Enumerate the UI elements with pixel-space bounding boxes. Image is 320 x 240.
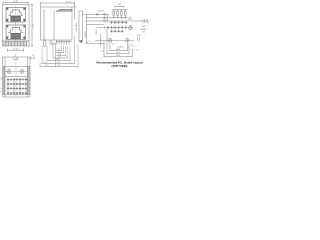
pcb layout pin hole row 3 xyxy=(110,30,123,33)
wire to capacitor xyxy=(131,20,143,22)
bottom view top notch xyxy=(14,57,18,60)
pcb layout mounting hole right xyxy=(126,38,130,43)
bottom view outer rectangle xyxy=(3,57,31,97)
resistor R4 xyxy=(124,10,126,18)
capacitor value label 1000pF 2kV xyxy=(141,26,147,34)
side view dimension extension lines xyxy=(40,36,78,67)
svg-text:14.0: 14.0 xyxy=(116,52,119,54)
pcb layout hole label leader xyxy=(111,42,114,46)
pcb layout pin hole row 1 xyxy=(110,21,127,24)
front view outer body rectangle xyxy=(3,5,30,47)
svg-text:3.3: 3.3 xyxy=(32,55,34,57)
pcb layout mounting hole left xyxy=(95,38,134,43)
resistor R2 xyxy=(117,10,119,18)
resistor R1 xyxy=(113,10,115,18)
svg-text:16.26: 16.26 xyxy=(116,49,120,51)
svg-text:1.14: 1.14 xyxy=(57,49,60,51)
center mark xyxy=(15,54,17,57)
svg-text:RJ45 JACK: RJ45 JACK xyxy=(75,22,78,32)
node junction circle xyxy=(96,13,98,15)
schematic jack connector body J1 xyxy=(79,11,83,41)
bottom view left tick texts xyxy=(0,78,2,94)
side view dimension texts xyxy=(43,49,61,67)
bottom view right shaded strip xyxy=(28,67,31,95)
svg-text:2.54: 2.54 xyxy=(57,51,60,53)
pcb layout right side dim marks xyxy=(131,37,140,48)
front view top dimension line xyxy=(3,2,28,5)
termination bracket xyxy=(115,6,124,8)
svg-text:12.70: 12.70 xyxy=(56,62,60,64)
wire pin2 xyxy=(86,17,127,19)
front view lower jack contact comb xyxy=(11,34,21,39)
bottom view left tick marks xyxy=(0,80,2,94)
svg-text:13.21: 13.21 xyxy=(33,23,35,29)
front view upper jack contact comb xyxy=(11,16,21,21)
svg-text:8-Ø0.89: 8-Ø0.89 xyxy=(85,31,87,37)
termination rail wire xyxy=(113,9,128,11)
svg-text:7.62: 7.62 xyxy=(58,57,61,59)
svg-text:2-Ø0.89: 2-Ø0.89 xyxy=(97,10,104,12)
svg-text:6.35: 6.35 xyxy=(43,62,46,64)
svg-text:16.51: 16.51 xyxy=(116,55,120,57)
wire pin3 xyxy=(86,20,128,22)
junction dots under resistors xyxy=(113,17,125,18)
side view top dimension line xyxy=(41,2,75,7)
jack foot block xyxy=(79,41,82,43)
wire pin1 xyxy=(83,13,109,15)
pcb layout dimension line 2 xyxy=(107,29,129,54)
side view nested pin dimension lines xyxy=(40,50,78,66)
svg-text:0.64: 0.64 xyxy=(135,50,138,52)
svg-text:2.5: 2.5 xyxy=(0,78,2,80)
bottom view inner lines xyxy=(3,57,31,97)
node chassis connection xyxy=(129,18,132,21)
bottom view pin grid xyxy=(7,78,27,95)
capacitor C1 xyxy=(143,19,147,23)
leader line to hole row xyxy=(106,14,108,22)
vertical bus line xyxy=(85,14,87,43)
svg-text:15.24: 15.24 xyxy=(13,1,19,3)
junction diamond 2 xyxy=(103,20,106,23)
front view lower jack opening xyxy=(6,25,26,40)
svg-text:2.54: 2.54 xyxy=(100,51,103,53)
pcb layout dimension line 1 xyxy=(110,43,127,51)
svg-text:Ø3.2: Ø3.2 xyxy=(137,35,141,37)
pcb layout shield hole right xyxy=(128,25,133,30)
svg-text:1000pF: 1000pF xyxy=(141,29,147,31)
front view bottom pin comb xyxy=(3,41,30,46)
svg-text:(TOP VIEW): (TOP VIEW) xyxy=(112,64,128,68)
bottom view post left xyxy=(6,69,11,74)
front view bottom width dimension xyxy=(8,49,24,52)
bottom view right small dimension bracket xyxy=(31,57,34,60)
svg-text:5.08: 5.08 xyxy=(58,54,61,56)
svg-text:0.09: 0.09 xyxy=(118,4,122,6)
bottom view post right xyxy=(19,69,24,74)
bottom view center line xyxy=(15,56,17,99)
resistor R3 xyxy=(121,10,123,18)
side view latch wedge xyxy=(56,9,72,11)
svg-text:2.5: 2.5 xyxy=(0,91,2,93)
side view bottom pins xyxy=(44,40,73,46)
bottom view post side ticks xyxy=(5,71,27,73)
side view body xyxy=(41,7,73,40)
svg-text:10.16: 10.16 xyxy=(56,59,60,61)
wire pin4 xyxy=(86,24,104,26)
svg-text:Ø1.02: Ø1.02 xyxy=(96,30,98,35)
pcb layout pin hole row 2 xyxy=(96,26,127,29)
bottom view left shaded strip xyxy=(3,67,6,95)
svg-text:16.0: 16.0 xyxy=(45,65,48,67)
junction diamond 0 xyxy=(103,13,106,16)
svg-text:21.59: 21.59 xyxy=(66,1,72,3)
junction diamond 1 xyxy=(103,17,106,20)
front view right dimension line xyxy=(31,5,34,47)
front view upper jack opening xyxy=(6,7,26,22)
svg-text:15.24: 15.24 xyxy=(57,65,61,67)
side view right dimension xyxy=(73,7,76,20)
pcb layout dimension line 3 xyxy=(100,34,132,57)
front view center line xyxy=(15,6,17,44)
chassis ground xyxy=(147,19,149,23)
